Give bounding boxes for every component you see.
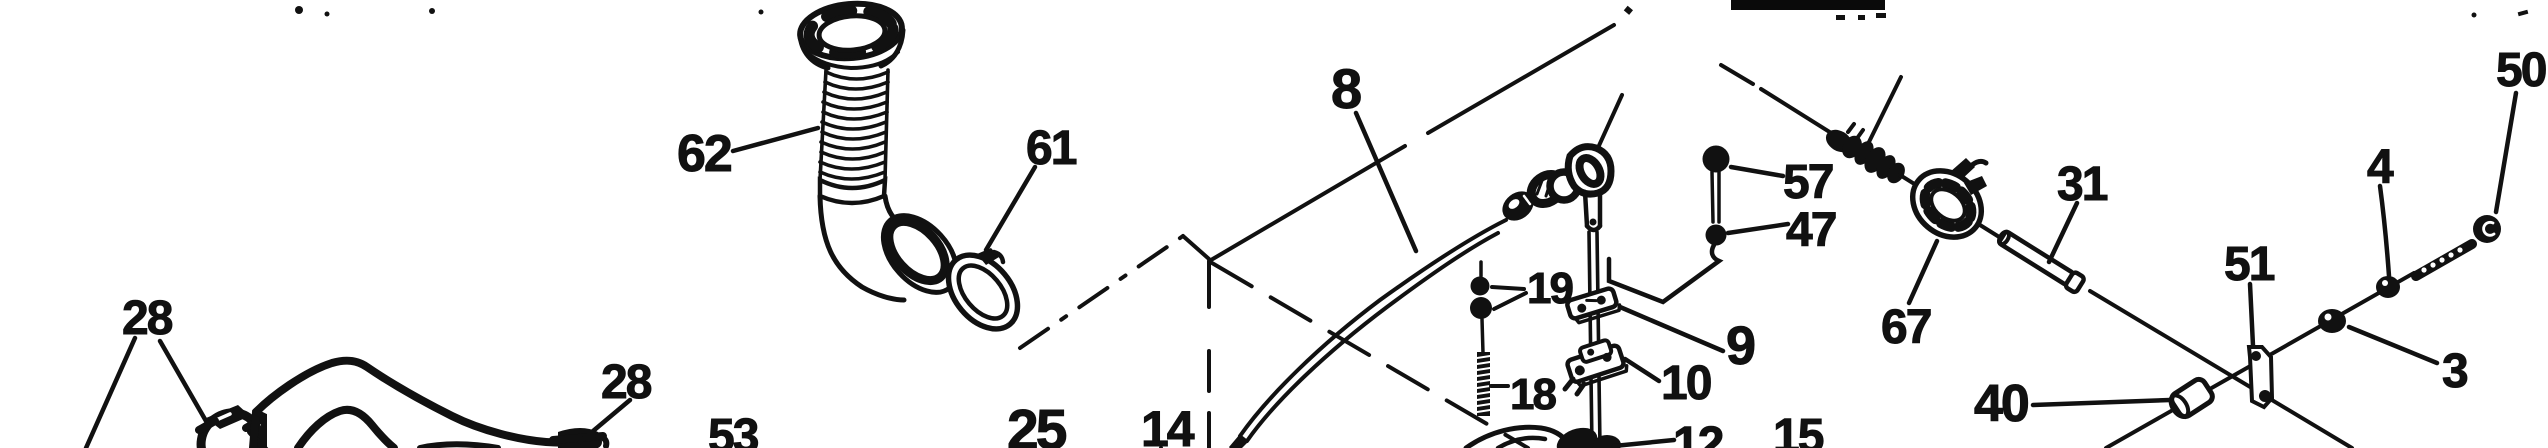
leader 9: [1620, 307, 1723, 351]
filler neck flange outer: [798, 0, 904, 62]
leader 57: [1731, 167, 1783, 176]
svg-text:3: 3: [2442, 345, 2467, 398]
rod A main upper: [1761, 89, 1836, 136]
clamp 61 ring inner: [949, 257, 1016, 328]
leader 10: [1625, 359, 1659, 381]
svg-text:18: 18: [1510, 370, 1556, 419]
cable tip: [1229, 434, 1249, 448]
svg-text:12: 12: [1673, 418, 1723, 448]
speck top right 1: [2472, 13, 2477, 18]
cable end ferrule nut: [1497, 185, 1540, 226]
leader 8: [1356, 113, 1416, 251]
nut 4: [2377, 277, 2399, 297]
bushing 40: [2166, 377, 2215, 421]
leader (hidden label) to swage fitting: [1867, 77, 1901, 146]
svg-text:67: 67: [1881, 301, 1931, 354]
leader 67: [1909, 241, 1937, 303]
clamp 61 screw ear: [977, 248, 999, 265]
hose clamp 28 (left): [190, 401, 271, 448]
svg-text:47: 47: [1786, 204, 1836, 257]
hose clamp 67 ring: [1899, 157, 1994, 251]
solid diagonal up-right (with gap): [1211, 25, 1614, 260]
elbow body: [820, 196, 904, 300]
nut 3: [2319, 310, 2345, 332]
speck top 3: [429, 8, 435, 14]
ball 19 lower: [1470, 297, 1492, 319]
leader 19 upper: [1492, 287, 1524, 289]
leader 28 left-right: [160, 341, 206, 421]
ball pin 57: [1703, 146, 1730, 173]
leader 50: [2496, 93, 2516, 212]
hose inner lower arc: [420, 444, 498, 448]
svg-text:31: 31: [2057, 158, 2108, 211]
svg-text:57: 57: [1783, 156, 1833, 209]
dash-dot line from clamp to corner: [1020, 236, 1183, 348]
swage fitting beads: [1822, 125, 1909, 186]
svg-text:40: 40: [1974, 375, 2028, 433]
bracket 51: [2249, 347, 2272, 407]
vertical rod (double line): [1589, 232, 1600, 448]
flange lug ring: [807, 7, 894, 56]
plate 10: [1564, 336, 1628, 388]
ball 19 upper: [1471, 277, 1490, 296]
svg-text:8: 8: [1331, 57, 1362, 120]
sleeve 31: [1996, 228, 2085, 293]
leader 3: [2349, 327, 2437, 363]
svg-text:53: 53: [708, 410, 758, 448]
bent wire below ball 47: [1609, 245, 1719, 302]
hose end face: [256, 412, 264, 448]
swivel head inner: [1575, 154, 1605, 187]
leader 61: [986, 167, 1035, 250]
speck top-left 1: [295, 6, 303, 14]
dashed diagonal to bellcrank: [1212, 263, 1528, 448]
svg-text:10: 10: [1661, 357, 1711, 410]
speck top 4: [759, 10, 764, 15]
hose (upper radiator hose) outer curve: [253, 361, 594, 448]
speck top right 2: [2518, 10, 2529, 16]
plate 10 screws: [1565, 379, 1584, 394]
pin 57 stem: [1712, 172, 1719, 222]
svg-text:50: 50: [2496, 44, 2546, 97]
marks under bar: [1836, 15, 1845, 20]
plate 9: [1566, 287, 1621, 325]
bolt 50 threaded shank: [2416, 244, 2472, 276]
hose clamp 28 (right): [553, 428, 606, 448]
svg-text:25: 25: [1007, 398, 1067, 448]
swivel head: [1568, 147, 1611, 194]
stem above balls: [1479, 262, 1483, 276]
vertical dashed line: [1207, 261, 1211, 448]
cable tube outer line: [1240, 220, 1506, 436]
leader 62: [733, 128, 818, 151]
ball 47: [1706, 225, 1727, 246]
cable tube inner line: [1247, 233, 1498, 441]
flange skirt: [800, 30, 903, 68]
leader 28 left-left: [86, 338, 135, 448]
svg-text:62: 62: [677, 125, 731, 183]
stem below balls: [1482, 319, 1483, 353]
neck sides: [820, 70, 888, 180]
flange inner hole: [818, 13, 887, 53]
swivel washer: [1550, 172, 1578, 200]
leader 51: [2250, 284, 2253, 346]
svg-text:15: 15: [1773, 410, 1824, 448]
swivel leader line: [1597, 95, 1622, 150]
leader 40: [2033, 400, 2170, 405]
svg-text:28: 28: [122, 292, 173, 345]
leader 31: [2049, 203, 2077, 262]
leader 47: [1728, 224, 1788, 233]
tiny dash near top center: [1624, 6, 1633, 15]
corner step: [1183, 236, 1209, 259]
spring 18: [1477, 352, 1490, 416]
rod A through clamp: [1900, 175, 2004, 240]
elbow mouth rim: [878, 211, 956, 291]
leader 12: [1614, 440, 1674, 446]
rod A lower: [2090, 291, 2352, 448]
leader 19 lower: [1494, 293, 1526, 309]
elbow mouth outer: [869, 202, 971, 306]
svg-text:14: 14: [1141, 401, 1195, 448]
neck bellows: [820, 72, 888, 179]
rod A leading dash: [1721, 65, 1753, 84]
hose inner curve: [298, 410, 394, 448]
leader 28 right: [580, 400, 630, 442]
black censor bar top: [1731, 0, 1885, 10]
svg-text:9: 9: [1726, 316, 1756, 376]
hose clamp 61 ring outer: [935, 242, 1032, 342]
collar below bellows: [820, 180, 885, 203]
speck top-left 2: [325, 12, 330, 17]
bellcrank arm outline: [1466, 427, 1568, 448]
bolt 50 head: [2473, 215, 2501, 243]
leader 18 tick: [1491, 384, 1508, 388]
leader 4: [2380, 186, 2389, 276]
rod B: [2106, 273, 2414, 448]
swivel small cylinder: [1526, 168, 1569, 209]
clevis fork: [1585, 192, 1600, 226]
bellcrank hub: [1553, 423, 1601, 448]
clamp 67 ears: [1950, 158, 1975, 180]
